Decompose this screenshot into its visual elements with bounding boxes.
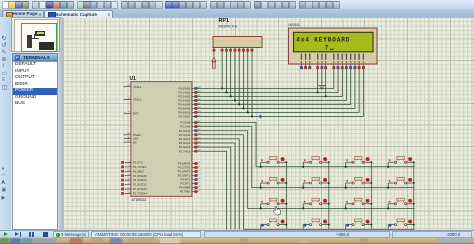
junction button r3c4/row — [387, 207, 389, 209]
wire RP1 pin 2 to P0.0 — [221, 51, 223, 88]
junction button r4c3/column — [370, 224, 372, 226]
wire button r3c4 to row line — [387, 204, 389, 209]
push button row 4 col 1 — [261, 219, 287, 227]
junction button r2c4/row — [387, 187, 389, 189]
wire P2.0 to keypad row 1 — [198, 123, 415, 167]
svg-text:P0.7/AD7: P0.7/AD7 — [178, 115, 190, 119]
terminals header — [12, 53, 58, 62]
junction button r2c1/column — [285, 182, 287, 184]
wire keypad column 1 — [285, 162, 287, 229]
wire button r2c1 to row line — [260, 183, 262, 188]
junction button r3c3/row — [345, 207, 347, 209]
terminals list — [12, 61, 58, 230]
tab bar — [0, 9, 474, 17]
push button row 4 col 4 — [388, 219, 414, 227]
RP1 pin state boxes — [213, 49, 215, 51]
svg-text:LM016L: LM016L — [288, 23, 300, 27]
wire button r2c3 to row line — [345, 183, 347, 188]
push button row 3 col 3 — [346, 198, 372, 205]
junction button r1c2/column — [328, 161, 330, 163]
LCD pin stubs and vertical pin name texture — [301, 64, 363, 67]
svg-text:P1.0/T2: P1.0/T2 — [133, 161, 143, 165]
svg-text:XTAL1: XTAL1 — [133, 85, 142, 89]
wire button r1c4 to row line — [387, 162, 389, 167]
wire P0.3 bus line to LCD D3 — [198, 69, 346, 101]
MCU left pin stubs — [125, 87, 131, 194]
push button row 1 col 3 — [346, 157, 372, 164]
status bar — [0, 230, 474, 239]
windows taskbar sliver — [0, 238, 474, 244]
wire P0.4 bus line to LCD D4 — [198, 69, 351, 105]
junction button r2c1/row — [260, 187, 262, 189]
wire keypad column 4 — [413, 162, 415, 229]
wire LCD RW to ground — [321, 69, 323, 85]
wire button r2c2 to row line — [302, 183, 304, 188]
wire RP1 pin 6 to P0.4 — [238, 51, 240, 104]
power terminal at RP1 pin 1 — [212, 51, 216, 68]
svg-text:AT89C52: AT89C52 — [132, 198, 147, 202]
push button row 2 col 1 — [261, 177, 287, 184]
junction button r2c3/row — [345, 187, 347, 189]
top toolbar — [0, 0, 474, 9]
junction RP1/P0.6 — [247, 111, 249, 113]
wire P2.4 to keypad column (runs to bottom) — [198, 139, 239, 230]
junction button r3c2/column — [328, 203, 330, 205]
wire keypad column 2 — [328, 162, 330, 229]
junction button r1c1/row — [260, 166, 262, 168]
LCD pin state boxes — [300, 66, 303, 69]
left tool column — [0, 17, 11, 230]
wire P2.5 to keypad column (runs to bottom) — [198, 143, 235, 230]
push button row 4 col 2 — [303, 219, 329, 227]
wire RP1 pin 9 to P0.7 — [251, 51, 253, 116]
push button row 2 col 2 — [303, 177, 329, 184]
junction button r2c2/row — [302, 187, 304, 189]
junction button r1c3/row — [345, 166, 347, 168]
junction button r4c4/column — [413, 224, 415, 226]
svg-text:P1.5/CEX2: P1.5/CEX2 — [133, 183, 147, 187]
wire keypad column 3 — [370, 162, 372, 229]
junction button r4c1/column — [285, 224, 287, 226]
wire button r1c2 to row line — [302, 162, 304, 167]
svg-text:RESPACK-8: RESPACK-8 — [219, 25, 238, 29]
svg-text:4x4 KEYBOARD: 4x4 KEYBOARD — [296, 37, 350, 44]
svg-text:P3.7/RD: P3.7/RD — [180, 190, 191, 194]
junction button r3c1/row — [260, 207, 262, 209]
wire P2.3 to keypad row 4 — [198, 135, 415, 229]
schematic grid background — [63, 17, 474, 230]
svg-text:P2.7/A15: P2.7/A15 — [179, 149, 191, 153]
junction RP1/P0.0 — [221, 87, 223, 89]
push button row 2 col 3 — [346, 177, 372, 184]
push button row 1 col 4 — [388, 157, 414, 164]
junction button r1c1/column — [285, 161, 287, 163]
junction button r2c4/column — [413, 182, 415, 184]
push button row 1 col 2 — [303, 157, 329, 164]
svg-text:EA: EA — [133, 140, 137, 144]
left pane background — [11, 17, 60, 230]
junction button r3c1/column — [285, 203, 287, 205]
junction RP1/P0.5 — [242, 107, 244, 109]
mouse cursor (hand) — [273, 206, 280, 215]
wire LCD RS down to bus line 1 — [317, 69, 319, 93]
junction button r1c2/row — [302, 166, 304, 168]
svg-text:P1.6/CEX3: P1.6/CEX3 — [133, 187, 147, 191]
ground symbol at LCD RW — [318, 85, 325, 88]
wire P0.5 bus line to LCD D5 — [198, 69, 355, 109]
junction RS/bus — [317, 91, 319, 93]
push button row 4 col 3 — [346, 219, 372, 227]
junction button r1c4/row — [387, 166, 389, 168]
wire P0.1 bus line to LCD D1 — [198, 69, 338, 93]
RP1 pin stubs — [214, 48, 252, 50]
svg-text:U1: U1 — [130, 76, 137, 82]
junction RP1/P0.3 — [234, 99, 236, 101]
MCU right pin stubs — [192, 88, 198, 191]
junction button r3c4/column — [413, 203, 415, 205]
junction button r4c2/column — [328, 224, 330, 226]
wire RP1 pin 7 to P0.5 — [242, 51, 244, 108]
svg-text:RP1: RP1 — [219, 18, 230, 24]
push button row 3 col 4 — [388, 198, 414, 205]
junction button r2c2/column — [328, 182, 330, 184]
wire button r3c1 to row line — [260, 204, 262, 209]
LCD screen — [294, 32, 374, 52]
wire P0.7 bus line to LCD D7 — [198, 69, 363, 117]
junction button r3c2/row — [302, 207, 304, 209]
wire button r2c4 to row line — [387, 183, 389, 188]
wire P2.7 to keypad column (runs to bottom) — [198, 151, 227, 229]
svg-text:P1.2/ECI: P1.2/ECI — [133, 169, 144, 173]
wire LCD E down to bus line 2 — [325, 69, 327, 97]
wire RP1 pin 5 to P0.3 — [234, 51, 236, 100]
RP1 body — [213, 37, 262, 48]
junction button r2c3/column — [370, 182, 372, 184]
junction button r1c3/column — [370, 161, 372, 163]
MCU U1 body — [131, 82, 192, 197]
object preview panel — [11, 17, 60, 52]
junction button r3c3/column — [370, 203, 372, 205]
push button row 1 col 1 — [261, 157, 287, 164]
wire button r1c3 to row line — [345, 162, 347, 167]
LCD body — [289, 28, 378, 64]
wire P2.2 to keypad row 3 — [198, 131, 415, 209]
wire RP1 pin 3 to P0.1 — [225, 51, 227, 92]
svg-text:P1.7/CEX4: P1.7/CEX4 — [133, 192, 147, 196]
junction RP1/P0.4 — [238, 103, 240, 105]
voltage probe marker on P0.7 line — [259, 115, 263, 119]
wire P0.0 bus line to LCD D0 — [198, 69, 334, 89]
svg-text:P1.4/CEX1: P1.4/CEX1 — [133, 178, 147, 182]
svg-text:P1.1/T2EX: P1.1/T2EX — [133, 165, 147, 169]
wire P0.6 bus line to LCD D6 — [198, 69, 359, 113]
wire P2.6 to keypad column (runs to bottom) — [198, 147, 231, 229]
push button row 3 col 1 — [261, 198, 287, 205]
junction RP1/P0.7 — [251, 115, 253, 117]
junction button r1c4/column — [413, 161, 415, 163]
push button row 2 col 4 — [388, 177, 414, 184]
panel/canvas divider — [58, 17, 63, 230]
junction RP1/P0.2 — [230, 95, 232, 97]
svg-text:P1.3/CEX0: P1.3/CEX0 — [133, 174, 147, 178]
wire P2.1 to keypad row 2 — [198, 127, 415, 188]
svg-text:RST: RST — [133, 111, 139, 115]
push button row 3 col 2 — [303, 198, 329, 205]
wire button r3c3 to row line — [345, 204, 347, 209]
wire RP1 pin 8 to P0.6 — [247, 51, 249, 112]
wire button r3c2 to row line — [302, 204, 304, 209]
wire button r1c1 to row line — [260, 162, 262, 167]
junction RP1/P0.1 — [225, 91, 227, 93]
svg-text:XTAL2: XTAL2 — [133, 98, 142, 102]
wire P0.2 bus line to LCD D2 — [198, 69, 342, 97]
wire RP1 pin 4 to P0.2 — [230, 51, 232, 96]
junction E/bus — [325, 95, 327, 97]
svg-text:7: 7 — [325, 45, 329, 52]
